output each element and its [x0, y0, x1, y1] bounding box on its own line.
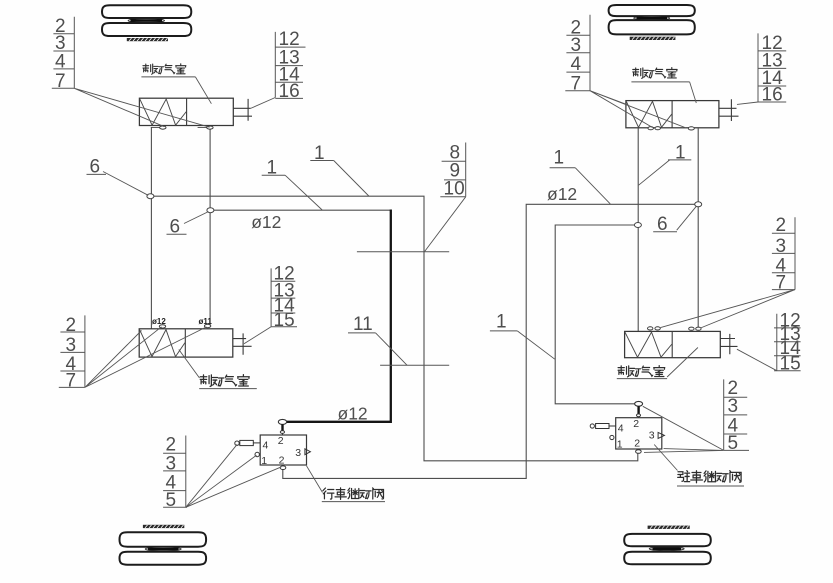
- brake chamber front-right body: [626, 101, 719, 128]
- leader line 12-13-14-16 top-left to fitting: [251, 98, 276, 109]
- svg-text:2: 2: [279, 455, 285, 467]
- parking relay valve exhaust triangle port 3: [658, 432, 664, 438]
- service relay valve exhaust triangle port 3: [305, 449, 311, 455]
- svg-text:2: 2: [633, 418, 639, 430]
- value label o12 valve: [338, 404, 368, 424]
- label brake chamber rear-right: [617, 366, 667, 379]
- wire inner-left horizontal: [210, 209, 390, 211]
- leader line parking relay valve label: [654, 445, 677, 471]
- value label o12 right: [547, 184, 577, 204]
- hose coupling tick lower: [380, 364, 449, 366]
- svg-text:ø12: ø12: [251, 212, 281, 232]
- svg-text:15: 15: [780, 354, 801, 375]
- callout column 2-3-4-7 bottom-left: [59, 315, 85, 392]
- callout column 2-3-4-5 left: [163, 434, 187, 511]
- callout column 2-3-4-7 top-left: [52, 16, 75, 92]
- callout label 1 right-c: [490, 312, 517, 333]
- leader line brake chamber front-left label: [195, 77, 211, 104]
- callout label 11: [348, 314, 376, 335]
- wire outer-left run to parking valve: [150, 196, 637, 461]
- node junction left outer: [147, 194, 154, 199]
- service valve top port circle and stub: [278, 419, 286, 435]
- callout label 1 left-a: [262, 158, 285, 179]
- svg-text:11: 11: [353, 314, 373, 335]
- leader line brake chamber rear-right label: [667, 348, 698, 378]
- callout label 6 right: [653, 214, 677, 235]
- callout label 6 left-a: [87, 157, 107, 178]
- leader lines 2-3-4-5 right to parking valve: [643, 406, 724, 452]
- leader line 6 right: [677, 206, 697, 230]
- callout column 12-13-14-15 right: [774, 310, 801, 374]
- svg-text:ø12: ø12: [152, 317, 166, 326]
- callout column 2-3-4-7 right: [772, 215, 795, 293]
- wire left front chamber drop right: [209, 128, 211, 325]
- leader line 1 right-c: [517, 331, 555, 359]
- svg-text:7: 7: [571, 74, 582, 95]
- brake chamber rear-left fitting: [233, 333, 252, 354]
- service relay valve port 4 fitting: [235, 440, 260, 445]
- brake chamber rear-right body: [625, 331, 721, 357]
- air spring front-right: [609, 5, 695, 34]
- hose coupling tick upper: [357, 251, 449, 253]
- svg-text:ø11: ø11: [199, 317, 213, 326]
- parking valve top port circle and stub: [635, 401, 643, 418]
- leader lines 2-3-4-7 top-left to chamber: [74, 88, 209, 127]
- callout label 6 left-b: [167, 217, 187, 238]
- svg-text:1: 1: [617, 439, 623, 451]
- wire inner-left bold run to service valve top: [284, 210, 391, 422]
- svg-text:7: 7: [776, 272, 787, 293]
- wire service valve delivery run to right chambers: [283, 204, 695, 478]
- leader line 1 left-a: [285, 175, 322, 210]
- label port size o11: [199, 317, 213, 326]
- svg-text:ø12: ø12: [338, 404, 368, 424]
- svg-text:4: 4: [263, 440, 269, 452]
- air spring front-right mounting hatch: [630, 37, 676, 40]
- brake chamber rear-right ports: [648, 327, 702, 331]
- svg-text:1: 1: [675, 143, 686, 164]
- svg-text:2: 2: [278, 435, 284, 447]
- leader line 12-13-14-16 top-right to fitting: [737, 102, 758, 104]
- leader lines 2-3-4-7 right to rear chamber: [661, 290, 796, 328]
- leader line 8-9-10 to coupling: [425, 197, 466, 252]
- node junction right inner: [634, 223, 641, 228]
- label brake chamber front-right: [631, 68, 689, 82]
- wire right front chamber drop right: [697, 129, 699, 328]
- leader line 12-13-14-15 right to fitting: [737, 349, 777, 371]
- brake chamber rear-left ports: [159, 324, 211, 328]
- svg-text:7: 7: [66, 371, 77, 392]
- leader line 1 left-b: [334, 161, 369, 197]
- callout column 2-3-4-5 right: [724, 378, 749, 454]
- svg-text:3: 3: [295, 447, 301, 459]
- wire inner-right run to parking valve top: [555, 225, 635, 404]
- leader line 12-13-14-15 left to fitting: [244, 327, 271, 344]
- callout label 1 right-a: [550, 148, 576, 169]
- leader line brake chamber rear-left label: [179, 350, 200, 379]
- svg-text:4: 4: [618, 423, 624, 435]
- svg-text:7: 7: [55, 71, 66, 92]
- label service relay valve: [322, 488, 385, 502]
- value label o12 left: [251, 212, 281, 232]
- label port size o12: [152, 317, 166, 326]
- leader line 11 to coupling: [376, 333, 407, 365]
- brake chamber rear-left body: [139, 329, 233, 357]
- service relay valve U1 body: [260, 435, 306, 467]
- wire right front chamber drop left: [637, 128, 639, 331]
- svg-text:2: 2: [166, 434, 177, 455]
- brake chamber front-right fitting: [719, 99, 739, 121]
- leader line 1 right-a: [575, 168, 610, 204]
- brake chamber front-left ports: [151, 126, 213, 129]
- parking relay valve port 1 circle: [610, 435, 614, 439]
- service relay valve port 1 circle: [255, 452, 259, 456]
- leader line service relay valve label: [307, 466, 323, 493]
- air spring front-left: [102, 5, 191, 36]
- wire left front chamber drop left: [150, 128, 152, 329]
- leader line 6 left-a: [103, 172, 148, 196]
- svg-text:ø12: ø12: [547, 184, 577, 204]
- label brake chamber front-left: [141, 64, 195, 77]
- node junction left inner: [207, 208, 214, 213]
- brake chamber front-right ports: [648, 127, 694, 130]
- air spring rear-right mounting hatch: [648, 526, 690, 529]
- callout label 1 left-b: [310, 143, 333, 164]
- svg-text:10: 10: [444, 178, 465, 199]
- brake chamber front-left body: [139, 98, 233, 125]
- air spring front-left mounting hatch: [127, 38, 168, 41]
- leader lines 2-3-4-7 bottom-left to rear chamber: [85, 327, 207, 388]
- parking valve bottom port circle: [636, 450, 642, 454]
- parking relay valve U2 body: [616, 418, 662, 451]
- svg-text:1: 1: [261, 455, 267, 467]
- leader lines 2-3-4-7 top-right to chamber: [590, 91, 686, 128]
- svg-text:3: 3: [649, 430, 655, 442]
- leader line 6 left-b: [184, 212, 208, 224]
- callout column 8-9-10 center: [440, 142, 465, 199]
- brake chamber front-left fitting: [233, 99, 252, 121]
- callout column 12-13-14-16 top-right: [758, 33, 786, 105]
- brake chamber rear-right fitting: [720, 334, 737, 354]
- svg-text:2: 2: [66, 315, 77, 336]
- air spring rear-right: [624, 534, 711, 564]
- svg-text:3: 3: [728, 396, 739, 417]
- leader line 1 right-b: [639, 160, 670, 185]
- svg-text:1: 1: [554, 148, 565, 169]
- svg-text:2: 2: [634, 438, 640, 450]
- callout column 12-13-14-16 top-left: [275, 29, 305, 102]
- leader lines 2-3-4-5 left to service valve: [186, 444, 281, 507]
- label parking relay valve: [677, 471, 744, 486]
- callout column 2-3-4-7 top-right: [565, 15, 590, 95]
- service valve bottom port circle and stub: [280, 466, 286, 470]
- callout column 12-13-14-15 left: [271, 264, 297, 331]
- parking relay valve port 4 fitting: [590, 424, 616, 429]
- node junction right outer: [695, 202, 702, 207]
- label brake chamber rear-left: [199, 375, 257, 389]
- leader line brake chamber front-right label: [690, 82, 697, 103]
- air spring rear-left mounting hatch: [143, 525, 184, 528]
- callout label 1 right-b: [668, 143, 691, 164]
- svg-text:1: 1: [496, 312, 507, 333]
- air spring rear-left: [120, 532, 207, 564]
